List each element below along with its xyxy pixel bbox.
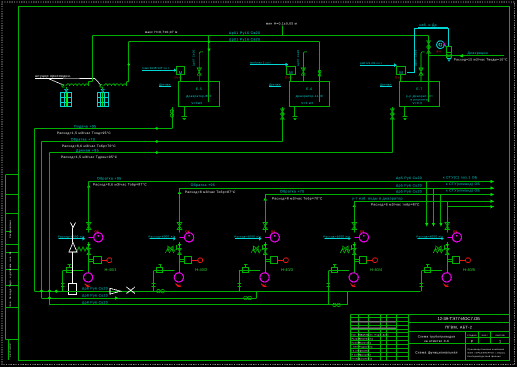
svg-text:Расход=4000 л/ч: Расход=4000 л/ч [323,235,350,239]
svg-text:Деаэратор-1100: Деаэратор-1100 [296,94,323,98]
svg-text:Инв. № подл.: Инв. № подл. [9,287,12,306]
svg-text:М: М [179,70,183,75]
svg-text:Е-5: Е-5 [196,87,202,91]
svg-text:Расход=4000 л/ч: Расход=4000 л/ч [58,235,85,239]
svg-text:Р: Р [471,339,474,343]
svg-text:Подача +95: Подача +95 [74,124,96,128]
svg-text:Согласовано: Согласовано [9,220,12,239]
svg-text:Подп. и дата: Подп. и дата [9,269,12,288]
svg-text:Откр: Откр [395,76,403,80]
svg-text:1: 1 [499,339,501,343]
svg-text:Лист №док. Подп. Дата: Лист №док. Подп. Дата [359,334,389,337]
svg-text:Н-40/1: Н-40/1 [105,267,118,272]
svg-text:Взам. инв. №: Взам. инв. № [9,251,12,270]
svg-text:Δр5 Ру6 Св20: Δр5 Ру6 Св20 [396,190,422,194]
svg-text:Н-40/2: Н-40/2 [195,267,208,272]
svg-text:Расход=8 м3/час Тобр=87°С: Расход=8 м3/час Тобр=87°С [185,190,236,194]
svg-text:Е-6: Е-6 [306,87,312,91]
svg-text:Обратка +95: Обратка +95 [97,177,121,181]
svg-text:листов: листов [495,334,505,337]
svg-text:Δр8 Ру6 Св20: Δр8 Ру6 Св20 [82,287,108,291]
svg-text:Деаэратор-800: Деаэратор-800 [186,94,211,98]
svg-text:Δр5 Ру6 Св20: Δр5 Ру6 Св20 [396,176,422,180]
svg-text:Δр01 Ру16 Св20: Δр01 Ру16 Св20 [229,31,260,35]
svg-text:Расход=4000 л/ч: Расход=4000 л/ч [416,235,443,239]
svg-text:Екатеринбургский филиал: Екатеринбургский филиал [468,355,502,358]
svg-text:V=3 м3: V=3 м3 [301,101,313,105]
svg-text:ПГВМ, АБТ-2: ПГВМ, АБТ-2 [445,326,472,330]
svg-text:М: М [289,70,293,75]
svg-text:ОК: ОК [453,229,458,233]
svg-text:V=3м3: V=3м3 [191,101,202,105]
svg-text:Расход=4000 л/ч: Расход=4000 л/ч [234,235,261,239]
svg-text:макс Н=0,7±0,07 м: макс Н=0,7±0,07 м [145,30,178,34]
svg-text:Δр8 Ру6 Св20: Δр8 Ру6 Св20 [82,300,108,304]
svg-text:Н-40/4: Н-40/4 [370,267,383,272]
svg-text:Схема трубопроводов: Схема трубопроводов [418,335,456,339]
svg-text:Δр8 Ру6 Св20: Δр8 Ру6 Св20 [82,293,108,297]
svg-text:Откр: Откр [285,76,293,80]
svg-text:ОК: ОК [360,229,365,233]
svg-text:Расход=8,6 м3/час Тобр=87°С: Расход=8,6 м3/час Тобр=87°С [93,182,147,186]
svg-text:Жеребцова: Жеребцова [359,338,374,341]
svg-text:14-Р-ИОС: 14-Р-ИОС [9,343,12,357]
svg-text:к СТУ(С) поз.1 ОБ: к СТУ(С) поз.1 ОБ [443,175,478,179]
svg-text:Хохрякова: Хохрякова [359,357,373,360]
svg-text:ОК: ОК [185,229,190,233]
svg-text:Δр07 Св20: Δр07 Св20 [297,49,300,66]
svg-text:Исаева: Исаева [360,350,370,353]
svg-text:Производственная компания: Производственная компания [468,348,505,351]
svg-text:Дренаж: Дренаж [159,83,171,87]
svg-text:М: М [399,70,403,75]
svg-text:мин Н=0,1±0,05 м: мин Н=0,1±0,05 м [266,22,297,26]
svg-text:Обратка +70: Обратка +70 [71,137,95,141]
svg-text:ОК: ОК [271,229,276,233]
svg-text:Расход=6 м3/час тобр=87С: Расход=6 м3/час тобр=87С [371,203,420,207]
svg-text:вкл/откл 1 со t: вкл/откл 1 со t [250,60,271,64]
svg-text:Δр5 Ру6 Св20: Δр5 Ру6 Св20 [396,184,422,188]
svg-text:Козырева: Козырева [359,354,372,357]
svg-text:темп 9±45°С/Т со t: темп 9±45°С/Т со t [142,66,169,70]
svg-text:стадия: стадия [467,334,477,337]
svg-text:к СТУ(команд) ОБ: к СТУ(команд) ОБ [446,182,481,186]
svg-text:у-т изб. воды в деаэратор: у-т изб. воды в деаэратор [352,197,403,201]
svg-text:раб 1/1,2/1 со t: раб 1/1,2/1 со t [360,61,382,65]
svg-text:ОК: ОК [94,229,99,233]
svg-text:Расход=1,5 м3/час Тдрен=95°С: Расход=1,5 м3/час Тдрен=95°С [61,155,118,159]
svg-text:к СТУ(команд) ОБ: к СТУ(команд) ОБ [446,189,481,193]
svg-text:V=0,3: V=0,3 [412,101,422,105]
svg-text:Обратка +95: Обратка +95 [191,183,215,187]
svg-text:Дренаж +95: Дренаж +95 [76,148,99,152]
svg-text:на отметке 0-6: на отметке 0-6 [424,339,449,343]
svg-text:ФН: ФН [436,50,441,54]
svg-text:Деаэрация: Деаэрация [468,51,488,55]
svg-text:Расход=8 м3/час Тобр=70°С: Расход=8 м3/час Тобр=70°С [272,196,323,200]
svg-text:Δр07 Св20: Δр07 Св20 [193,49,196,66]
svg-text:Дренаж: Дренаж [380,83,392,87]
svg-text:Е-7: Е-7 [416,87,422,91]
svg-text:Дренаж: Дренаж [269,83,281,87]
svg-text:ГИП: ГИП [353,346,358,349]
svg-text:ООО «УРАЛЭНЕРГО» г.Пермь: ООО «УРАЛЭНЕРГО» г.Пермь [468,352,506,355]
svg-text:Расход=4000 л/ч: Расход=4000 л/ч [149,235,176,239]
svg-text:Обратка +70: Обратка +70 [280,190,304,194]
svg-text:Н-40/3: Н-40/3 [281,267,294,272]
svg-text:Схема функциональная: Схема функциональная [415,351,458,355]
svg-text:Романова: Романова [359,342,372,345]
svg-text:лист: лист [482,334,489,337]
svg-text:штуцер присоедин.: штуцер присоедин. [35,74,71,78]
svg-text:Расход=1,5 м3/час Тпод=95°С: Расход=1,5 м3/час Тпод=95°С [57,131,111,135]
svg-text:Δр01 Ру16 Св20: Δр01 Ру16 Св20 [229,38,260,42]
svg-text:Откр: Откр [174,76,182,80]
svg-text:Расход=8,6 м3/час Тобр=70°С: Расход=8,6 м3/час Тобр=70°С [62,144,116,148]
svg-text:Н-40/5: Н-40/5 [463,267,476,272]
svg-text:12-39-ТЭ77-ИОС7.ОБ: 12-39-ТЭ77-ИОС7.ОБ [437,316,480,321]
svg-text:изб. и Др: изб. и Др [420,23,437,27]
svg-text:Расход≈15 м3/час Тводы=10°С: Расход≈15 м3/час Тводы=10°С [454,58,508,62]
svg-text:Родионова: Родионова [359,346,373,349]
